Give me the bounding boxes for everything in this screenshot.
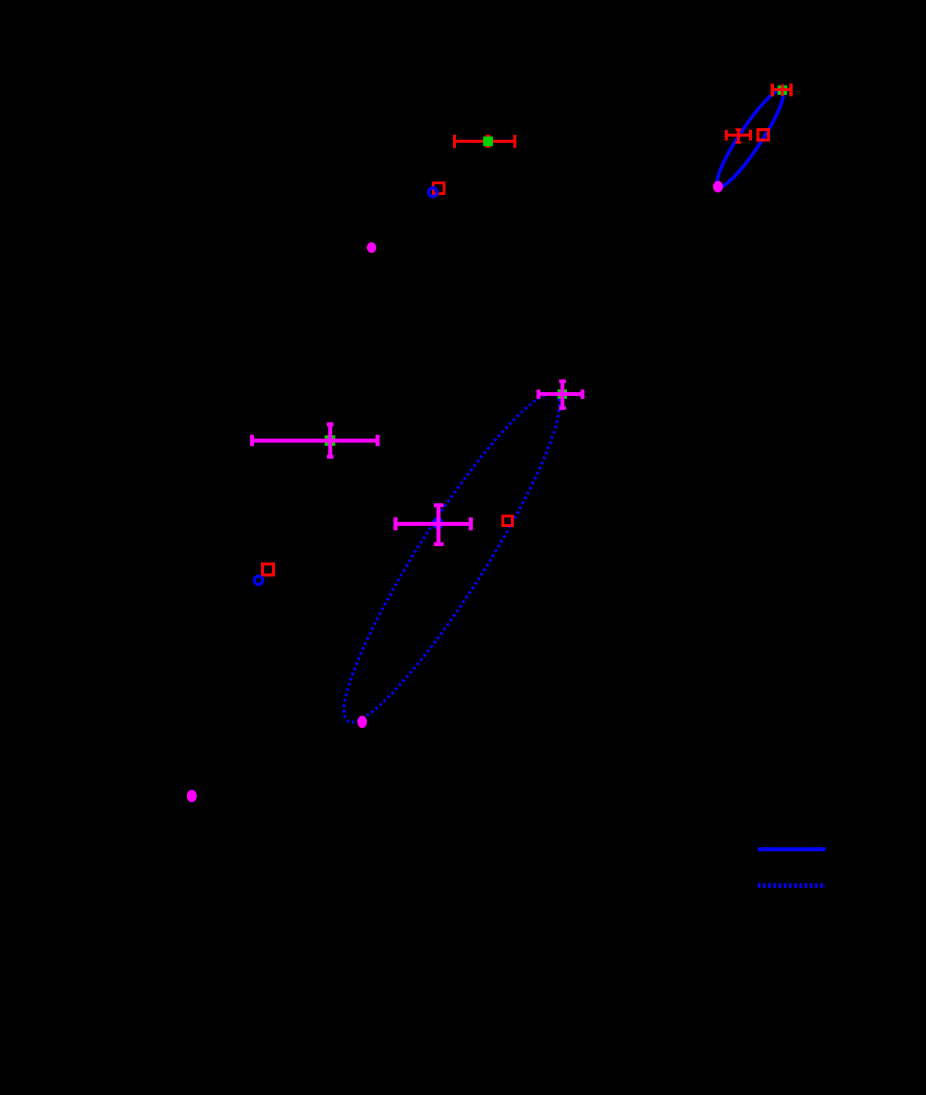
open red square right of cross [503,516,513,526]
isolated magenta dot lower left [187,790,197,802]
open red square marker [433,183,444,194]
error bar with green square marker (left middle-top) [454,135,516,148]
open blue circle marker [429,188,438,197]
open red square on solid ellipse [758,130,769,141]
magenta error-bar cross with blue circle (on dotted ellipse left arc) [394,505,473,545]
magenta dot at solid ellipse bottom apex [713,181,723,193]
red error bar cross on solid ellipse (middle) [726,129,750,142]
open red square (lower left pair) [263,564,274,575]
top-right error bar with green square marker on solid ellipse apex [772,84,791,97]
open blue circle (lower left pair) [254,576,262,584]
solid blue orbit ellipse (top right) [709,84,792,193]
magenta dot at dotted ellipse bottom apex [357,716,367,728]
dotted blue orbit ellipse (center) [319,376,584,739]
magenta filled dot [367,242,376,253]
legend dotted blue line [758,883,826,888]
magenta error-bar cross with green square (left) [251,423,379,459]
magenta error-bar cross with green square at dotted ellipse apex [538,381,585,409]
legend solid blue line [758,847,826,851]
